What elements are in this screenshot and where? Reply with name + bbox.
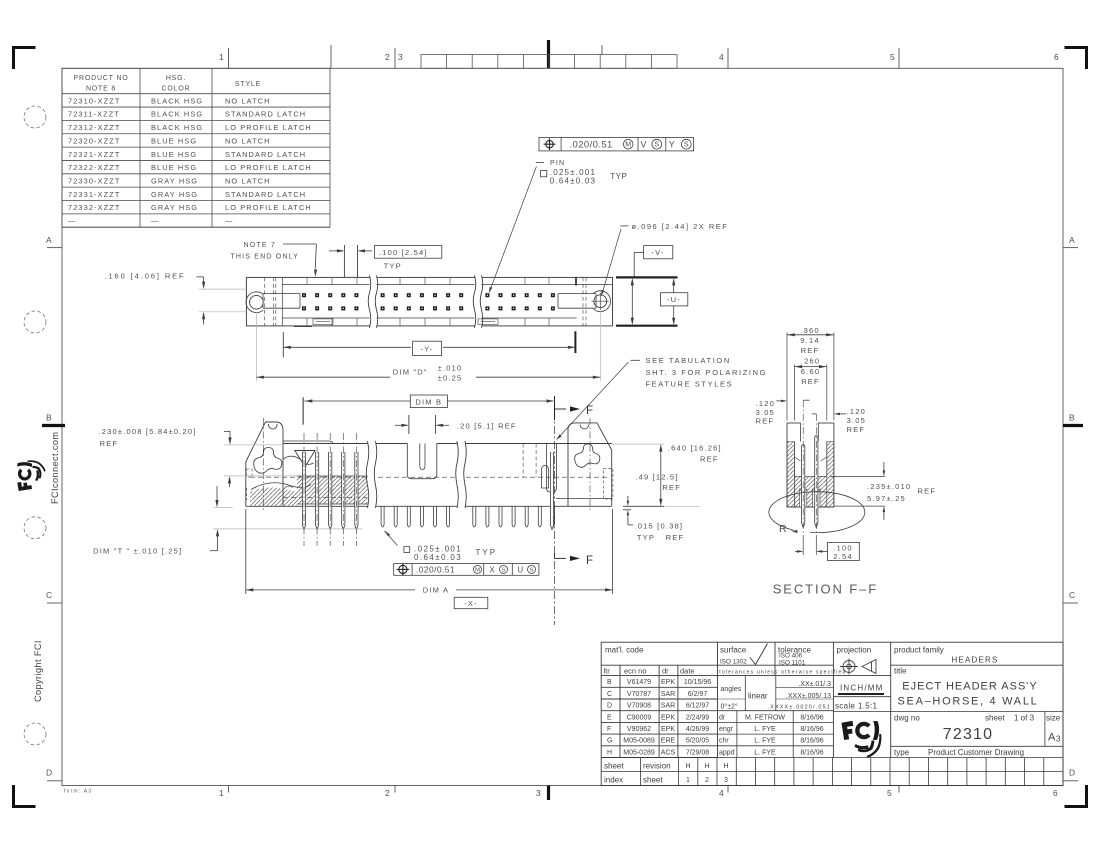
svg-text:FEATURE STYLES: FEATURE STYLES <box>646 379 734 388</box>
svg-text:BLACK HSG: BLACK HSG <box>151 123 203 132</box>
svg-text:5: 5 <box>890 52 895 62</box>
svg-text:SHT. 3 FOR POLARIZING: SHT. 3 FOR POLARIZING <box>646 368 768 377</box>
svg-text:SEE TABULATION: SEE TABULATION <box>646 356 731 365</box>
svg-text:dr: dr <box>719 714 726 721</box>
svg-text:E: E <box>607 714 612 721</box>
left margin FCI logo <box>17 460 45 491</box>
svg-text:2: 2 <box>385 52 390 62</box>
front view left ear <box>246 422 283 506</box>
svg-text:product family: product family <box>894 646 944 655</box>
svg-text:linear: linear <box>748 692 768 701</box>
svg-text:SEA–HORSE, 4 WALL: SEA–HORSE, 4 WALL <box>898 696 1039 708</box>
dim .235 <box>830 475 886 477</box>
svg-text:B: B <box>46 413 52 423</box>
svg-text:.120: .120 <box>756 399 775 408</box>
section f-f outer walls <box>787 423 834 507</box>
pin 9 <box>407 506 410 527</box>
svg-text:STANDARD LATCH: STANDARD LATCH <box>225 190 306 199</box>
svg-text:72312-XZZT: 72312-XZZT <box>68 123 121 132</box>
svg-text:72331-XZZT: 72331-XZZT <box>68 190 121 199</box>
svg-text:C: C <box>607 691 612 698</box>
datum -X- <box>454 597 488 608</box>
svg-text:scale: scale <box>835 702 855 711</box>
svg-text:H: H <box>704 763 709 770</box>
eject slot <box>407 444 437 479</box>
datum -Y- dimension <box>282 332 284 357</box>
svg-text:B: B <box>1069 413 1075 423</box>
svg-text:8/16/96: 8/16/96 <box>800 738 823 745</box>
pin 19 <box>538 506 541 527</box>
top view wall tick marks <box>307 277 549 326</box>
svg-text:projection: projection <box>837 646 872 655</box>
svg-text:6/12/97: 6/12/97 <box>686 703 709 710</box>
title block outer <box>601 642 1063 785</box>
svg-text:5.97±.25: 5.97±.25 <box>867 494 906 503</box>
svg-text:F: F <box>607 726 611 733</box>
svg-text:BLUE HSG: BLUE HSG <box>151 163 197 172</box>
svg-text:sheet: sheet <box>985 714 1005 723</box>
svg-text:3.05: 3.05 <box>756 408 775 417</box>
svg-text:.XXX±.005/.13: .XXX±.005/.13 <box>786 693 831 700</box>
right ear dashed slot <box>604 468 613 499</box>
dim .015 <box>623 505 664 507</box>
svg-text:L. FYE: L. FYE <box>754 749 776 756</box>
svg-text:V70908: V70908 <box>627 703 651 710</box>
pin centreline ticks <box>803 399 809 401</box>
svg-text:6: 6 <box>1054 52 1059 62</box>
top view right latch tab <box>558 294 596 309</box>
svg-text:D: D <box>46 768 52 778</box>
left ear notch circle <box>268 424 277 429</box>
svg-text:10/15/96: 10/15/96 <box>684 679 711 686</box>
right ear notch circle <box>580 425 589 429</box>
svg-text:6/2/97: 6/2/97 <box>688 691 708 698</box>
svg-text:-X-: -X- <box>464 599 478 608</box>
svg-text:EJECT HEADER ASS'Y: EJECT HEADER ASS'Y <box>902 681 1037 693</box>
svg-text:D: D <box>1069 768 1075 778</box>
svg-text:72310-XZZT: 72310-XZZT <box>68 96 121 105</box>
front view break lines left pair <box>368 442 376 508</box>
svg-text:3: 3 <box>398 52 403 62</box>
svg-text:FCIconnect.com: FCIconnect.com <box>50 432 60 505</box>
svg-text:.260: .260 <box>801 356 820 365</box>
svg-text:.XXXX±.0020/.051: .XXXX±.0020/.051 <box>767 705 831 711</box>
svg-text:8/16/96: 8/16/96 <box>800 714 823 721</box>
sheet index grid <box>601 758 1063 786</box>
svg-text:tolerances unless otherwise: tolerances unless otherwise specified <box>719 670 846 676</box>
svg-text:C: C <box>1069 590 1075 600</box>
title block labels <box>605 646 1061 758</box>
left ear dashed slot <box>247 469 253 477</box>
svg-text:S: S <box>684 141 689 149</box>
feature control frame top <box>539 137 694 151</box>
svg-text:H: H <box>685 763 690 770</box>
svg-text:GRAY HSG: GRAY HSG <box>151 190 198 199</box>
svg-text:dwg no: dwg no <box>894 714 920 723</box>
pin 17 <box>512 506 515 527</box>
svg-text:—: — <box>68 217 77 226</box>
svg-text:appd: appd <box>719 749 735 756</box>
svg-text:SECTION F–F: SECTION F–F <box>773 582 878 597</box>
rev table header <box>604 667 695 676</box>
top view left end dashed lines <box>264 277 266 326</box>
F arrow bottom <box>554 553 556 558</box>
bottom centre fold mark <box>547 786 550 801</box>
dim .640 and .49 right side <box>612 443 664 445</box>
svg-text:ERE: ERE <box>661 738 676 745</box>
svg-text:2/24/99: 2/24/99 <box>686 714 709 721</box>
svg-text:M. FETROW: M. FETROW <box>745 714 785 721</box>
svg-text:6: 6 <box>1053 788 1058 798</box>
svg-text:0°±2°: 0°±2° <box>721 703 738 711</box>
svg-text:L. FYE: L. FYE <box>754 738 776 745</box>
svg-text:H: H <box>607 749 612 756</box>
front view break lines right pair <box>457 442 465 508</box>
sectioned pin at cut <box>550 452 553 530</box>
svg-text:REF: REF <box>756 417 775 426</box>
revision rows <box>607 679 711 756</box>
svg-text:—: — <box>151 217 160 226</box>
svg-text:3: 3 <box>536 788 541 798</box>
svg-text:U: U <box>518 565 525 574</box>
svg-text:BLACK HSG: BLACK HSG <box>151 110 203 119</box>
svg-text:surface: surface <box>720 646 747 655</box>
right ear centerline <box>589 418 591 510</box>
svg-text:.49 [12.5]: .49 [12.5] <box>635 472 678 481</box>
svg-text:C: C <box>46 590 52 600</box>
svg-text:V: V <box>641 140 648 150</box>
svg-text:PIN: PIN <box>550 160 565 167</box>
front view hatch band <box>297 476 368 504</box>
svg-text:M05-0289: M05-0289 <box>623 749 655 756</box>
svg-text:V90962: V90962 <box>627 726 651 733</box>
svg-text:TYP: TYP <box>637 533 655 542</box>
svg-text:.160 [4.06] REF: .160 [4.06] REF <box>105 271 186 280</box>
sectioned pin 3 <box>329 452 332 530</box>
svg-text:ISO 1101: ISO 1101 <box>779 659 806 666</box>
svg-text:NO LATCH: NO LATCH <box>225 96 271 105</box>
svg-text:3.05: 3.05 <box>847 416 866 425</box>
right end dashed guide lines <box>522 444 524 478</box>
top border zone labels <box>219 52 1059 62</box>
svg-text:ACS: ACS <box>661 749 676 756</box>
pin 20 <box>551 506 554 527</box>
svg-text:BLACK HSG: BLACK HSG <box>151 96 203 105</box>
svg-text:REF: REF <box>700 455 719 464</box>
svg-text:M05-0089: M05-0089 <box>623 738 655 745</box>
svg-text:.120: .120 <box>847 407 866 416</box>
sheet index text <box>604 762 671 785</box>
sectioned pin 4 <box>342 452 345 530</box>
svg-text:3: 3 <box>724 777 728 784</box>
pin square callout bottom <box>385 531 398 546</box>
svg-text:—: — <box>225 217 234 226</box>
approval rows <box>719 714 824 756</box>
svg-text:2.54: 2.54 <box>833 552 852 561</box>
svg-text:0.64±0.03: 0.64±0.03 <box>550 177 596 186</box>
svg-text:DIM "D": DIM "D" <box>393 368 428 377</box>
svg-text:1: 1 <box>686 777 690 784</box>
section f-f wall hatch <box>787 442 794 508</box>
svg-text:HSG.: HSG. <box>166 75 186 82</box>
svg-text:5: 5 <box>887 788 892 798</box>
svg-text:.640 [16.26]: .640 [16.26] <box>668 444 722 453</box>
svg-text:.360: .360 <box>800 326 819 335</box>
svg-text:Copyright FCI: Copyright FCI <box>33 640 43 702</box>
svg-text:-U-: -U- <box>667 295 681 304</box>
svg-text:TYP: TYP <box>384 261 402 270</box>
svg-text:angles: angles <box>721 686 742 693</box>
svg-text:S: S <box>654 141 659 149</box>
svg-text:S: S <box>502 567 506 573</box>
right ear sea-horse cutout <box>575 444 600 467</box>
top view left latch tab <box>263 294 300 309</box>
front view latch arm top <box>283 441 333 444</box>
svg-text:GRAY HSG: GRAY HSG <box>151 177 198 186</box>
svg-text:NO LATCH: NO LATCH <box>225 177 271 186</box>
right centre fold mark <box>1063 424 1083 427</box>
svg-text:G: G <box>607 738 612 745</box>
pin 10 <box>420 506 423 527</box>
svg-text:LO PROFILE LATCH: LO PROFILE LATCH <box>225 163 312 172</box>
svg-text:.100 [2.54]: .100 [2.54] <box>379 248 428 257</box>
svg-text:.230±.008 [5.84±0.20]: .230±.008 [5.84±0.20] <box>99 427 197 436</box>
left ear sea-horse cutout <box>254 448 282 474</box>
svg-text:STYLE: STYLE <box>235 81 261 88</box>
left centre fold mark <box>42 424 65 427</box>
svg-text:6.60: 6.60 <box>801 367 820 376</box>
top border zone ticks <box>229 45 900 68</box>
section f-f pin channels <box>800 489 807 507</box>
svg-text:.XX±.01/.3: .XX±.01/.3 <box>798 681 831 688</box>
top view bottom latch detail <box>313 319 333 325</box>
svg-text:revision: revision <box>643 762 671 771</box>
bottom border zone labels <box>219 788 1058 798</box>
section line F-F <box>554 396 556 625</box>
svg-text:REF: REF <box>662 483 681 492</box>
svg-text:S: S <box>530 567 534 573</box>
border row ticks <box>47 248 1078 781</box>
right ear step <box>556 498 612 500</box>
sectioned pin 5 <box>355 452 358 530</box>
svg-text:72310: 72310 <box>943 726 994 743</box>
datum plane -V- thick line <box>616 276 678 278</box>
svg-text:EPK: EPK <box>661 714 675 721</box>
surface check symbol <box>750 644 768 665</box>
top view right dark tick <box>575 277 577 285</box>
svg-text:HEADERS: HEADERS <box>951 656 998 665</box>
feature control frame bottom <box>394 564 539 576</box>
svg-text:STANDARD LATCH: STANDARD LATCH <box>225 150 306 159</box>
dim .100 [2.54] TYP pitch <box>375 246 442 259</box>
registration circles <box>24 106 46 745</box>
small step dimension arrow <box>216 486 218 504</box>
svg-text:dr: dr <box>662 667 669 676</box>
top centre fold mark <box>547 40 550 68</box>
section f-f cavity shelf lines <box>794 457 800 461</box>
front view body bottom edge <box>246 505 612 507</box>
latch mechanism at section cut <box>547 444 557 493</box>
pin 14 <box>473 506 476 527</box>
svg-text:sheet: sheet <box>604 762 624 771</box>
svg-text:2: 2 <box>705 777 709 784</box>
pin 11 <box>434 506 437 527</box>
svg-text:8/16/96: 8/16/96 <box>800 726 823 733</box>
svg-text:THIS END ONLY: THIS END ONLY <box>230 254 299 261</box>
svg-text:TYP: TYP <box>610 172 627 181</box>
dim .360 <box>786 332 788 420</box>
front view body top edge <box>283 443 407 445</box>
svg-text:-Y-: -Y- <box>421 344 434 353</box>
svg-text:F: F <box>586 555 594 567</box>
svg-text:4/26/99: 4/26/99 <box>686 726 709 733</box>
svg-text:ecn no: ecn no <box>624 667 647 676</box>
top view pin field <box>302 293 555 310</box>
svg-text:PRODUCT NO: PRODUCT NO <box>74 75 129 82</box>
projection column cells <box>833 697 890 712</box>
top view right eyelet boss <box>594 291 611 312</box>
svg-text:5/20/05: 5/20/05 <box>686 738 709 745</box>
dim A <box>245 509 247 594</box>
front view mid dashed line <box>250 476 608 478</box>
svg-text:EPK: EPK <box>661 726 675 733</box>
dim .100 pitch <box>802 535 804 555</box>
top view left eyelet hole <box>250 295 264 309</box>
pin 15 <box>486 506 489 527</box>
svg-text:1 of 3: 1 of 3 <box>1014 714 1035 723</box>
svg-text:-V-: -V- <box>651 248 664 257</box>
front view shoulder line <box>283 497 368 499</box>
svg-text:V61479: V61479 <box>627 679 651 686</box>
svg-text:TYP: TYP <box>476 548 498 557</box>
rotation ellipse R <box>769 492 865 533</box>
svg-text:±.010: ±.010 <box>438 364 463 373</box>
svg-text:0.64±0.03: 0.64±0.03 <box>414 553 462 562</box>
iso labels <box>720 653 806 667</box>
border row letters <box>46 235 1075 778</box>
svg-text:LO PROFILE LATCH: LO PROFILE LATCH <box>225 123 312 132</box>
svg-text:STANDARD LATCH: STANDARD LATCH <box>225 110 306 119</box>
svg-text:BLUE HSG: BLUE HSG <box>151 150 197 159</box>
svg-text:NOTE 8: NOTE 8 <box>86 86 116 93</box>
datum -V- <box>644 246 673 259</box>
section f-f right pin <box>815 436 818 528</box>
top view break lines <box>370 276 377 327</box>
svg-text:GRAY HSG: GRAY HSG <box>151 203 198 212</box>
top reduction scale bar <box>421 55 677 69</box>
svg-text:date: date <box>680 667 695 676</box>
product table header text <box>74 75 262 93</box>
pin 18 <box>525 506 528 527</box>
svg-text:1: 1 <box>219 788 224 798</box>
dim U arrows inner <box>631 281 633 322</box>
svg-text:title: title <box>894 667 907 676</box>
svg-text:3: 3 <box>1056 735 1062 744</box>
svg-text:.015 [0.38]: .015 [0.38] <box>635 522 684 531</box>
section f-f floor hatch <box>794 476 826 507</box>
svg-text:M: M <box>475 567 480 573</box>
F arrow top <box>555 408 567 410</box>
svg-text:COLOR: COLOR <box>162 86 191 93</box>
svg-text:9.14: 9.14 <box>800 336 819 345</box>
dim D <box>255 312 257 381</box>
top view right end dashed lines <box>582 277 584 326</box>
svg-text:ø.096 [2.44] 2X REF: ø.096 [2.44] 2X REF <box>632 222 729 231</box>
pos1 triangle locator <box>295 451 315 467</box>
svg-text:H: H <box>723 763 728 770</box>
bottom border zone ticks <box>229 786 900 793</box>
latch lever curves <box>283 456 314 464</box>
tolerance sub cells <box>718 676 834 711</box>
bottom-left hatch wedge <box>250 487 297 505</box>
projection symbol <box>840 659 876 675</box>
front view right ear <box>568 423 612 506</box>
svg-text:REF: REF <box>847 425 866 434</box>
svg-text:DIM B: DIM B <box>415 398 442 407</box>
svg-text:R: R <box>779 523 788 535</box>
top view body outline <box>246 277 612 326</box>
svg-text:EPK: EPK <box>661 679 675 686</box>
svg-text:Product Customer Drawing: Product Customer Drawing <box>928 748 1024 757</box>
svg-text:72320-XZZT: 72320-XZZT <box>68 136 121 145</box>
sectioned pin 1 <box>302 452 305 530</box>
drawing frame border <box>62 68 1063 785</box>
svg-text:A: A <box>46 235 52 245</box>
svg-text:M: M <box>625 142 631 149</box>
svg-text:index: index <box>604 776 623 785</box>
svg-text:REF: REF <box>666 533 685 542</box>
pin leader line <box>490 167 537 292</box>
svg-text:8/16/96: 8/16/96 <box>800 749 823 756</box>
pin 12 <box>447 506 450 527</box>
svg-text:7/29/08: 7/29/08 <box>686 749 709 756</box>
svg-text:ltr: ltr <box>604 667 611 676</box>
svg-text:L. FYE: L. FYE <box>754 726 776 733</box>
svg-text:1: 1 <box>219 52 224 62</box>
top view end wall divisions <box>281 277 283 326</box>
svg-text:72322-XZZT: 72322-XZZT <box>68 163 121 172</box>
svg-text:2: 2 <box>385 788 390 798</box>
svg-text:A: A <box>1069 235 1075 245</box>
left ear centerline <box>262 418 264 510</box>
svg-text:type: type <box>894 748 910 757</box>
pin 7 <box>381 506 384 527</box>
svg-text:NO LATCH: NO LATCH <box>225 136 271 145</box>
svg-text:BLUE HSG: BLUE HSG <box>151 136 197 145</box>
product table rows text <box>68 96 312 225</box>
sectioned pin 2 <box>316 452 319 530</box>
big FCI logo <box>842 721 882 758</box>
pin 16 <box>499 506 502 527</box>
svg-text:.020/0.51: .020/0.51 <box>570 140 613 151</box>
svg-text:INCH/MM: INCH/MM <box>840 684 884 693</box>
datum -U- <box>661 293 688 306</box>
svg-text:DIM A: DIM A <box>423 586 449 595</box>
svg-text:72321-XZZT: 72321-XZZT <box>68 150 121 159</box>
svg-text:ISO 1302: ISO 1302 <box>720 659 747 666</box>
svg-text:engr: engr <box>719 726 734 733</box>
svg-text:mat'l. code: mat'l. code <box>605 646 644 655</box>
svg-text:72330-XZZT: 72330-XZZT <box>68 177 121 186</box>
svg-text:.235±.010: .235±.010 <box>867 482 911 491</box>
tolerance values <box>721 681 832 711</box>
svg-text:size: size <box>1046 714 1061 723</box>
svg-text:4: 4 <box>719 788 724 798</box>
svg-text:V70787: V70787 <box>627 691 651 698</box>
svg-text:LO PROFILE LATCH: LO PROFILE LATCH <box>225 203 312 212</box>
svg-text:D: D <box>607 703 612 710</box>
svg-text:.20 [5.1] REF: .20 [5.1] REF <box>457 421 517 430</box>
